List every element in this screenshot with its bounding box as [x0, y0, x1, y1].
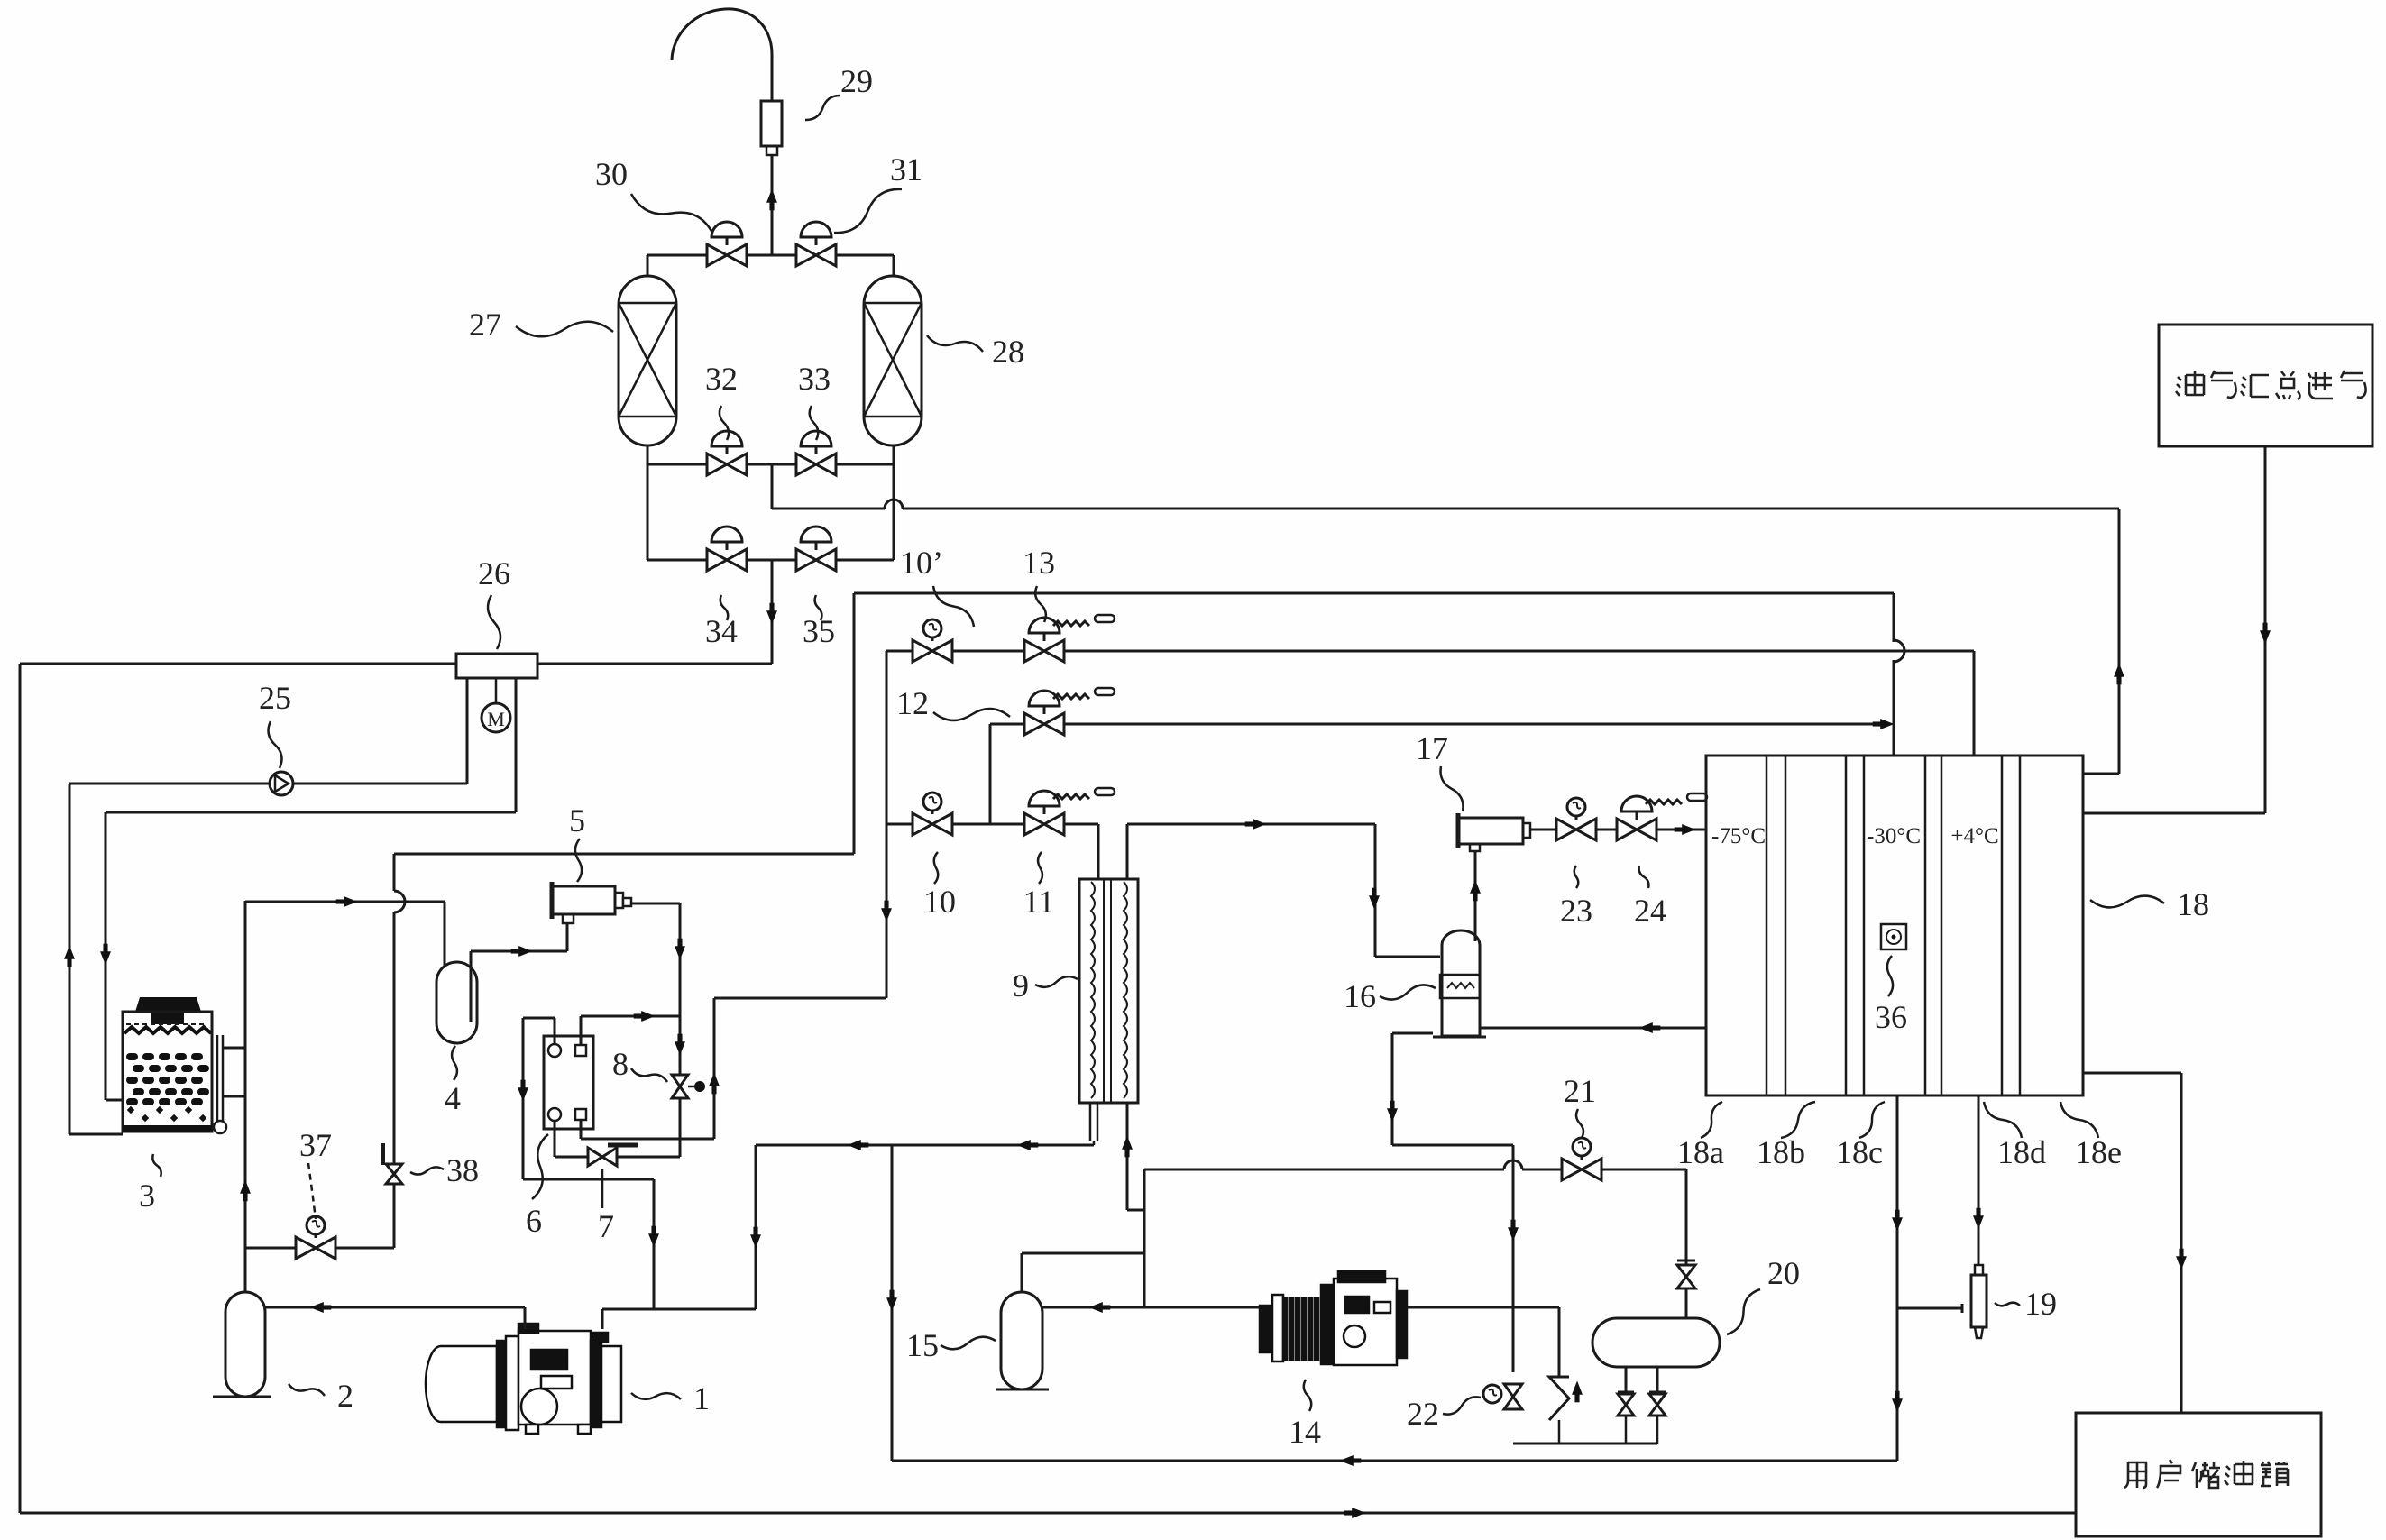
leader 32	[720, 406, 729, 440]
wire vessel15 vapor line	[1022, 1252, 1144, 1255]
wire x989 drop	[891, 1145, 894, 1461]
hand valve 38	[386, 1164, 402, 1184]
wire to vessel 27 top	[647, 255, 649, 278]
wire left drop to 34/35	[647, 464, 649, 560]
flow arrow into x2100	[1873, 719, 1895, 729]
flow arrow down	[1387, 1101, 1398, 1123]
svg-text:9: 9	[1013, 967, 1029, 1004]
flow arrow down x989	[886, 1290, 897, 1312]
filter 17	[1458, 818, 1523, 844]
wire x983 riser	[886, 651, 888, 998]
suction vessel 2	[225, 1292, 265, 1397]
valve 35	[796, 549, 836, 571]
svg-text:32: 32	[705, 361, 738, 397]
leader 30	[631, 194, 712, 233]
leader 6	[532, 1134, 548, 1199]
wire into box 18a	[1656, 829, 1706, 831]
wire 18a to 16 return	[1481, 1027, 1706, 1030]
wire compressor1 discharge riser	[755, 1145, 757, 1309]
leader 3	[152, 1154, 161, 1177]
leader 28	[927, 335, 983, 352]
valve 30	[707, 244, 747, 266]
wire vessel27 bottom	[647, 445, 649, 464]
wire BL port drop	[554, 1120, 556, 1157]
wire y658 header to box	[854, 592, 1894, 595]
wire up-leg	[471, 950, 567, 953]
flow arrow up vent	[766, 189, 777, 211]
svg-text:16: 16	[1344, 978, 1376, 1014]
leader 10'	[933, 586, 974, 627]
wire drop to user tank	[2180, 1073, 2183, 1413]
wire into vessel 15 side	[1042, 1306, 1144, 1309]
leader 33	[810, 406, 819, 440]
economizer vessel 16	[1442, 930, 1480, 1036]
jump of valve21 line over x1678	[1504, 1160, 1522, 1169]
wire HX6 left loop vertical	[522, 1018, 525, 1179]
wire far-left vertical	[19, 664, 22, 1513]
cold box 18 outer	[1706, 756, 2083, 1095]
svg-text:23: 23	[1560, 893, 1592, 929]
wire 17 to valve 23	[1530, 829, 1556, 831]
wire adsorber bottom header	[647, 559, 894, 562]
wire x1729 drop	[1558, 1307, 1561, 1377]
svg-text:22: 22	[1407, 1396, 1439, 1432]
flow arrow right y914	[1245, 819, 1267, 830]
wire HX9 out to x1525	[1127, 823, 1375, 826]
pump 25	[270, 772, 293, 795]
wire x437 riser upper	[393, 854, 396, 891]
inlet box: oil-gas collection intake	[2159, 325, 2372, 446]
flow arrow down 2	[1892, 1391, 1903, 1413]
wire 26 second drop	[515, 678, 518, 812]
flow arrow into 18a	[1675, 824, 1696, 835]
wire TR to junction	[581, 1015, 680, 1018]
leader 36	[1887, 956, 1893, 996]
flow arrow down	[766, 603, 777, 625]
wire drop x1525	[1374, 824, 1377, 957]
adsorber column 27	[619, 276, 676, 445]
svg-text:36: 36	[1875, 999, 1907, 1035]
leader 12	[933, 709, 1010, 720]
wire 20 drain1	[1625, 1367, 1628, 1392]
wire vessel28 bottom	[893, 445, 895, 464]
leader 1	[631, 1393, 681, 1399]
leader 8	[631, 1068, 667, 1082]
hand valve on 20 riser	[1677, 1265, 1695, 1288]
valve 33	[796, 454, 836, 475]
drain valve b	[1649, 1394, 1666, 1416]
svg-text:21: 21	[1564, 1073, 1596, 1109]
wire bottom main return	[20, 1512, 2076, 1515]
wire x2350 riser	[2118, 509, 2121, 774]
cold box partition x1980	[1785, 756, 1787, 1095]
wire valve 21 line left	[1144, 1169, 1504, 1171]
leader 17	[1441, 766, 1464, 811]
leader 13	[1035, 586, 1046, 622]
leader 15	[941, 1337, 996, 1350]
svg-text:26: 26	[478, 555, 510, 591]
flow arrow up x272	[240, 1180, 251, 1202]
cold box partition x2153	[1941, 756, 1943, 1095]
wire vessel2 to compressor1 suction	[265, 1306, 525, 1309]
control valve 12	[1024, 713, 1064, 735]
wire adsorber mid header	[647, 463, 894, 466]
flame arrestor 29	[761, 101, 782, 146]
svg-text:6: 6	[526, 1203, 542, 1239]
wire TL to loop	[523, 1017, 555, 1020]
flow arrow left into 15	[1089, 1302, 1111, 1313]
wire 16 drain	[1392, 1032, 1433, 1035]
accumulator vessel 20	[1592, 1318, 1720, 1367]
solenoid valve 23	[1556, 819, 1596, 840]
wire x437 riser lower	[393, 912, 396, 1248]
wire left header to 26	[20, 663, 456, 665]
leader 7	[601, 1169, 604, 1208]
cold box partition x2240	[2019, 756, 2022, 1095]
svg-text:M: M	[487, 708, 505, 730]
leader 31	[834, 189, 902, 233]
wire vent riser lower	[771, 155, 774, 255]
wire into 16 left	[1375, 956, 1440, 958]
svg-text:34: 34	[705, 613, 738, 649]
svg-text:37: 37	[299, 1127, 332, 1163]
control valve 24	[1617, 819, 1656, 840]
flow arrow left y1620	[1340, 1455, 1362, 1466]
wire HX9 right bottom drop	[1126, 1103, 1129, 1210]
wire y947 header	[394, 853, 854, 856]
wire 20 drain2	[1656, 1367, 1659, 1392]
wire drain manifold	[1513, 1443, 1657, 1445]
leader 5	[575, 839, 582, 882]
wire left riser to cooler	[69, 784, 71, 1134]
leader 14	[1304, 1380, 1311, 1411]
wire y1270 header	[756, 1144, 1094, 1147]
wire BR port drop	[580, 1120, 583, 1139]
svg-text:+4°C: +4°C	[1950, 824, 1998, 848]
wire into compressor1	[601, 1309, 604, 1329]
leader 16	[1380, 985, 1436, 999]
valve 34	[707, 549, 747, 571]
expansion valve 8	[672, 1075, 688, 1098]
sight glass 19	[1971, 1275, 1987, 1327]
wire 16 to 17	[1474, 850, 1477, 941]
flow arrow right on bottom return	[1344, 1508, 1366, 1518]
wire drop to valve 8	[679, 903, 682, 1139]
wire vent riser upper	[771, 54, 774, 101]
leader 9	[1035, 976, 1078, 987]
flow arrow down 2	[675, 1034, 685, 1056]
wire center drop	[771, 560, 774, 664]
flow arrow up	[64, 946, 75, 967]
wire dip tube into vessel 4	[444, 902, 446, 999]
wire x1269 vertical	[1143, 1169, 1146, 1307]
wire adsorber top header	[647, 254, 894, 257]
wire pump suction header	[69, 783, 467, 785]
wire drop x1544	[1391, 1033, 1394, 1145]
wire into vessel 15 top	[1021, 1253, 1023, 1292]
flow arrow left y1270	[848, 1140, 869, 1150]
wire y1270 to x1678	[1392, 1144, 1513, 1147]
svg-text:-30°C: -30°C	[1867, 824, 1921, 848]
wire loop bottom	[523, 1178, 654, 1181]
cold box partition x2047	[1845, 756, 1848, 1095]
wire valve 21 line right	[1522, 1169, 1686, 1171]
wire second header	[106, 811, 516, 814]
flow arrow down x838	[750, 1227, 761, 1249]
flow arrow down	[1369, 888, 1380, 910]
plate heat exchanger 6	[544, 1036, 593, 1129]
svg-text:27: 27	[469, 307, 501, 343]
solenoid valve 10	[913, 813, 952, 835]
wire box to x2350	[2083, 773, 2119, 775]
wire x2189 into box top	[1973, 651, 1976, 756]
leader 27	[516, 322, 613, 337]
flow arrow up relief	[1572, 1381, 1583, 1403]
wire riser x792	[713, 998, 716, 1139]
svg-text:4: 4	[445, 1080, 461, 1116]
leader 18e	[2060, 1102, 2098, 1138]
wire to vessel 28 top	[893, 255, 895, 278]
wire bottom junction header	[581, 1138, 714, 1141]
wire loop drop to discharge	[653, 1179, 656, 1309]
wire to vessel 4 dip	[245, 901, 445, 903]
svg-text:18: 18	[2177, 886, 2209, 922]
flow arrow down	[1892, 1210, 1903, 1232]
flow arrow left into 2	[310, 1302, 332, 1313]
leader 10	[934, 852, 938, 884]
flow arrow up	[1470, 880, 1481, 902]
wire to distributor 26	[537, 663, 772, 665]
wire x1098 drop	[989, 724, 992, 824]
flow arrow right	[336, 896, 358, 907]
coil heat exchanger 9	[1079, 879, 1138, 1103]
wire 23-24	[1596, 829, 1617, 831]
svg-text:10: 10	[923, 884, 956, 920]
svg-text:33: 33	[798, 361, 831, 397]
wire jog	[1127, 1209, 1144, 1212]
wire valve 10-11 line y914	[886, 823, 1098, 826]
svg-text:31: 31	[890, 151, 922, 188]
wire mid junction drop	[771, 464, 774, 509]
wire valve 12 line y803	[990, 723, 1885, 726]
svg-text:28: 28	[992, 334, 1024, 370]
screw compressor 1	[426, 1324, 621, 1434]
svg-text:14: 14	[1289, 1414, 1321, 1450]
svg-text:20: 20	[1767, 1255, 1800, 1291]
wire 18d bottom drop	[1978, 1095, 1980, 1265]
svg-text:5: 5	[569, 802, 585, 839]
motor M of 26	[495, 678, 498, 704]
wire branch to 19	[1897, 1307, 1962, 1310]
flow arrow up x2350	[2114, 664, 2124, 685]
cooler right tube	[216, 1035, 219, 1124]
solenoid valve 37	[296, 1237, 335, 1259]
valve 31	[796, 244, 836, 266]
leader 18b	[1781, 1102, 1815, 1138]
leader 34	[720, 595, 728, 620]
leader 20	[1727, 1289, 1760, 1334]
wire box to user tank	[2083, 1072, 2181, 1075]
svg-text:15: 15	[906, 1327, 939, 1363]
control valve 11	[1024, 813, 1064, 835]
leader 25	[268, 721, 281, 768]
leader 38	[410, 1167, 444, 1174]
svg-text:3: 3	[139, 1178, 155, 1214]
cold box partition x2067	[1863, 756, 1866, 1095]
wire valve 10p-13 line y722	[886, 650, 1974, 653]
jump over y722	[1894, 640, 1904, 662]
flow arrow down x725	[648, 1226, 659, 1248]
wire 18c bottom drop	[1896, 1095, 1899, 1461]
wire cooler outlet to riser	[223, 1095, 245, 1098]
drain valve a	[1618, 1394, 1634, 1416]
flow arrow down x983	[881, 901, 892, 922]
wire valve 37 line	[245, 1247, 394, 1250]
flow arrow up x792	[709, 1073, 720, 1095]
svg-text:18c: 18c	[1836, 1134, 1883, 1170]
svg-text:-75°C: -75°C	[1711, 824, 1766, 848]
user oil storage tank box	[2076, 1413, 2321, 1536]
cold box partition x2135	[1924, 756, 1927, 1095]
wire x947 riser	[853, 593, 856, 854]
svg-text:24: 24	[1634, 893, 1666, 929]
svg-text:18e: 18e	[2075, 1134, 2122, 1170]
svg-text:19: 19	[2024, 1286, 2057, 1322]
wire drop to vessel 20	[1685, 1169, 1688, 1318]
wire vessel4 internal tube	[470, 951, 473, 1022]
svg-text:38: 38	[446, 1152, 479, 1188]
wire 26 to pump line	[466, 678, 469, 784]
leader 22	[1443, 1397, 1481, 1414]
wire y1107 header	[714, 997, 886, 1000]
wire x1678 drop	[1512, 1145, 1515, 1372]
svg-text:29: 29	[840, 63, 873, 99]
flow arrow down x580	[518, 1080, 528, 1102]
svg-text:17: 17	[1416, 730, 1448, 766]
leader 29	[805, 96, 840, 120]
leader 18	[2090, 896, 2164, 908]
solenoid valve 22	[1504, 1384, 1522, 1409]
svg-text:10’: 10’	[900, 545, 943, 581]
wire TL port riser	[554, 1018, 556, 1044]
wire suction manifold to 14	[1144, 1306, 1271, 1309]
leader 18d	[1984, 1102, 2022, 1138]
flow arrow down x2512	[2260, 623, 2271, 645]
adsorber column 28	[864, 276, 922, 445]
flow arrow down	[1973, 1208, 1984, 1230]
svg-text:12: 12	[896, 685, 929, 721]
air cooler 3	[135, 997, 201, 1012]
svg-text:2: 2	[337, 1378, 353, 1414]
wire TR port riser	[580, 1016, 583, 1044]
svg-text:18b: 18b	[1757, 1134, 1805, 1170]
wire HX9 right channel riser	[1126, 824, 1129, 879]
cold box partition x1959	[1766, 756, 1768, 1095]
valve 7	[588, 1148, 617, 1166]
flow arrow up	[1122, 1136, 1133, 1158]
leader 24	[1639, 866, 1649, 888]
leader 11	[1038, 852, 1042, 884]
wire into cooler bottom	[69, 1133, 123, 1136]
svg-text:30: 30	[595, 156, 628, 192]
wire into cooler left	[106, 1099, 123, 1102]
distributor box 26	[456, 654, 537, 678]
leader 18a	[1701, 1102, 1722, 1138]
wire into compressor1 suction	[524, 1307, 527, 1329]
flow arrow left y1270 second	[1017, 1140, 1039, 1150]
svg-text:8: 8	[612, 1046, 629, 1082]
wire into HX9 left channel	[1097, 824, 1100, 879]
wire 14 discharge	[1384, 1306, 1559, 1309]
cold box partition x2220	[2001, 756, 2004, 1095]
svg-text:35: 35	[803, 613, 835, 649]
solenoid valve 21	[1562, 1159, 1601, 1180]
jump over y1000	[394, 891, 405, 912]
flow arrow right	[634, 1011, 656, 1022]
wire valve7 line	[555, 1156, 680, 1159]
wire riser x272 to vessel2	[244, 901, 247, 1292]
leader 35	[815, 595, 822, 620]
valve 32	[707, 454, 747, 475]
control valve 13	[1024, 640, 1064, 662]
wire 5 outlet	[631, 903, 680, 905]
wire regeneration return header y564	[772, 508, 885, 510]
svg-text:7: 7	[598, 1208, 614, 1244]
flow arrow down x2419	[2176, 1249, 2187, 1270]
line jump at x991	[885, 500, 903, 509]
wire right drop to 34/35	[893, 464, 895, 560]
leader 19	[1995, 1303, 2020, 1306]
receiver vessel 4	[436, 962, 477, 1043]
screw compressor 14	[1260, 1271, 1407, 1365]
svg-text:25: 25	[259, 680, 291, 716]
sensor 36	[1881, 924, 1906, 949]
svg-text:18d: 18d	[1997, 1134, 2046, 1170]
vent gooseneck pipe	[672, 9, 772, 60]
leader 26	[488, 595, 500, 649]
wire drop from inlet box	[2264, 446, 2267, 813]
wire stub	[679, 1139, 682, 1157]
svg-text:13: 13	[1023, 545, 1055, 581]
wire inlet from gas header	[2083, 812, 2265, 815]
leader 21	[1576, 1109, 1583, 1138]
svg-text:11: 11	[1023, 884, 1055, 920]
leader 18c	[1859, 1102, 1885, 1138]
wire y1620 return header	[892, 1460, 1897, 1462]
flow arrow down	[100, 944, 111, 966]
flow arrow right	[511, 946, 533, 957]
suction accumulator vessel 15	[1001, 1292, 1042, 1389]
wire into 5 bottom	[566, 923, 569, 951]
leader 4	[452, 1046, 457, 1080]
wire drop to cooler left	[105, 812, 107, 1100]
leader 2	[289, 1384, 325, 1396]
wire cooler out right	[223, 1047, 245, 1050]
wire x2100 into box top with jump	[1893, 593, 1895, 642]
solenoid valve 10'	[913, 640, 952, 662]
wire compressor1 discharge	[602, 1308, 756, 1311]
HX9 bottom-left stub	[1089, 1103, 1092, 1141]
flow arrow down x1678	[1508, 1220, 1519, 1242]
svg-text:1: 1	[693, 1380, 710, 1416]
filter dryer 5	[552, 886, 615, 914]
flow arrow left	[1639, 1022, 1661, 1033]
flow arrow down	[675, 939, 685, 960]
leader 23	[1574, 866, 1579, 888]
svg-text:18a: 18a	[1677, 1134, 1724, 1170]
